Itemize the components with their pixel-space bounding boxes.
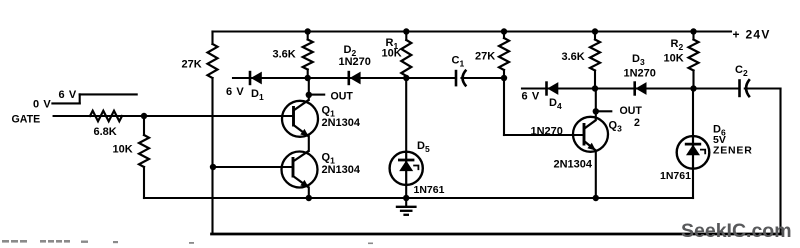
label OUT 2 <box>620 105 643 117</box>
wire R1 leads <box>405 32 407 41</box>
diode D3 <box>635 81 647 95</box>
wire Q3 collector to clamp bus <box>595 89 597 121</box>
label 6.8K <box>94 126 117 138</box>
svg-text:1N761: 1N761 <box>660 170 691 182</box>
wire Q3 emitter to ground rail <box>595 151 597 199</box>
svg-text:+ 24V: + 24V <box>733 28 771 42</box>
wire Q1 emitter to Q1 lower collector <box>308 137 310 152</box>
label D5 <box>417 140 430 154</box>
label 27K left <box>182 59 202 71</box>
label D3 <box>632 53 645 67</box>
label 3.6K second <box>562 51 585 63</box>
wire 27K feedback branch left vertical <box>211 32 213 45</box>
wire R2 leads <box>692 32 694 40</box>
label D6 5V <box>713 134 726 146</box>
label 0 V <box>33 99 51 111</box>
resistor 3.6K first stage collector <box>303 40 313 70</box>
wire Q1 collector to clamp bus <box>308 78 310 100</box>
label D4 1N270 <box>531 126 563 138</box>
label 6V right clamp <box>522 91 540 103</box>
label Q3 <box>609 120 623 134</box>
node gate divider junction <box>141 113 147 119</box>
label C1 <box>452 55 465 69</box>
label D2 <box>344 44 357 58</box>
wire Q1 lower base from feedback node <box>213 166 293 168</box>
wire right clamp bus 6V-D4-D3-C2 <box>522 87 740 89</box>
wire OUT 1 tick <box>311 94 324 96</box>
label C2 <box>735 64 748 78</box>
ground <box>396 198 417 215</box>
svg-text:6.8K: 6.8K <box>94 126 117 138</box>
label R1 <box>386 37 399 51</box>
node OUT 2 <box>593 108 599 114</box>
svg-text:3.6K: 3.6K <box>562 51 585 63</box>
label OUT 2 number <box>634 117 640 129</box>
wire D5 branch <box>405 78 407 152</box>
wire GATE input line to Q1 base <box>54 115 294 117</box>
svg-text:1N270: 1N270 <box>624 68 656 80</box>
caption fragments cut off at bottom <box>2 240 373 244</box>
svg-text:6 V: 6 V <box>226 86 244 98</box>
resistor 27K second stage bias <box>499 38 509 70</box>
zener diode D6 1N761 5V <box>677 136 710 169</box>
svg-text:1N270: 1N270 <box>339 56 371 68</box>
label 6 V step <box>59 89 77 101</box>
node OUT 1 <box>306 92 312 98</box>
transistor Q1 lower 2N1304 <box>282 151 318 188</box>
label D6 <box>713 124 726 138</box>
svg-text:1N270: 1N270 <box>531 126 563 138</box>
diode D1 <box>250 71 262 85</box>
zener diode D5 1N761 <box>390 152 423 185</box>
label D3 1N270 <box>624 68 656 80</box>
wire 3.6K right leads <box>594 32 596 40</box>
diode D2 <box>349 71 361 85</box>
label D1 <box>251 88 264 102</box>
node feedback to lower base <box>210 164 216 170</box>
label 6V left clamp <box>226 86 244 98</box>
wire OUT 2 tick <box>599 110 612 112</box>
svg-text:2N1304: 2N1304 <box>554 159 593 171</box>
node supply taps on +24V rail <box>305 28 697 34</box>
wire 27K second leads and Q3 base branch <box>503 32 505 39</box>
svg-text:SeekIC.com: SeekIC.com <box>681 220 792 242</box>
wire left clamp bus 6V-D1-D2-C1 <box>233 77 456 79</box>
label GATE <box>12 114 41 126</box>
label D4 <box>549 97 562 111</box>
resistor R1 10K <box>401 40 411 76</box>
capacitor C2 <box>740 79 750 97</box>
svg-text:2N1304: 2N1304 <box>322 164 361 176</box>
label 2N1304 upper <box>322 117 361 129</box>
label 10K gate <box>113 144 133 156</box>
svg-text:27K: 27K <box>182 59 202 71</box>
svg-text:1N761: 1N761 <box>414 184 445 196</box>
transistor Q3 2N1304 <box>573 117 608 152</box>
wire input step waveform <box>52 102 79 104</box>
svg-text:OUT: OUT <box>620 105 643 117</box>
svg-text:6 V: 6 V <box>59 89 77 101</box>
wire 10K top lead <box>143 116 145 135</box>
svg-text:10K: 10K <box>382 48 402 60</box>
resistor 3.6K second stage collector <box>590 40 600 71</box>
svg-text:GATE: GATE <box>12 114 41 126</box>
svg-text:10K: 10K <box>664 53 684 65</box>
resistor 27K left feedback <box>208 44 218 78</box>
wire 10K bottom lead <box>143 167 145 198</box>
svg-text:3.6K: 3.6K <box>273 49 296 61</box>
label 2N1304 lower <box>322 164 361 176</box>
svg-text:0 V: 0 V <box>33 99 51 111</box>
label R1 10K value <box>382 48 402 60</box>
svg-text:OUT: OUT <box>331 90 354 102</box>
svg-text:27K: 27K <box>475 51 495 63</box>
svg-text:2N1304: 2N1304 <box>322 117 361 129</box>
watermark SeekIC.com <box>681 220 792 242</box>
node right clamp bus junctions <box>592 85 697 91</box>
wire ground return rail <box>144 197 693 199</box>
wire D6 branch <box>692 89 694 137</box>
node ground rail junctions <box>306 195 599 201</box>
label R2 10K value <box>664 53 684 65</box>
label 2N1304 Q3 <box>554 159 593 171</box>
resistor 10K gate shunt <box>139 135 149 167</box>
transistor Q1 upper 2N1304 <box>282 100 318 137</box>
label 27K second <box>475 51 495 63</box>
wire Q1 lower emitter to ground rail <box>308 188 310 199</box>
label OUT 1 <box>331 90 354 102</box>
label Q1 upper <box>322 105 336 119</box>
wire +24V top supply rail <box>213 30 732 32</box>
wire right vertical from C2 to feedback line <box>779 89 781 235</box>
capacitor C1 <box>456 70 466 87</box>
label D2 1N270 <box>339 56 371 68</box>
resistor 6.8K gate series <box>90 111 122 121</box>
wire bottom feedback line to C2 <box>212 233 781 236</box>
label D6 1N761 <box>660 170 691 182</box>
label +24V supply <box>733 28 771 42</box>
svg-text:10K: 10K <box>113 144 133 156</box>
node left clamp bus junctions <box>305 75 508 81</box>
wire 3.6K left leads <box>307 32 309 40</box>
label D5 1N761 <box>414 184 445 196</box>
label D6 ZENER <box>713 145 753 157</box>
svg-text:2: 2 <box>634 117 640 129</box>
resistor R2 10K <box>689 40 699 71</box>
diode D4 <box>547 81 559 95</box>
svg-text:6 V: 6 V <box>522 91 540 103</box>
svg-text:ZENER: ZENER <box>713 145 753 157</box>
label Q1 lower <box>322 152 336 166</box>
label 3.6K first <box>273 49 296 61</box>
label R2 <box>671 38 684 52</box>
